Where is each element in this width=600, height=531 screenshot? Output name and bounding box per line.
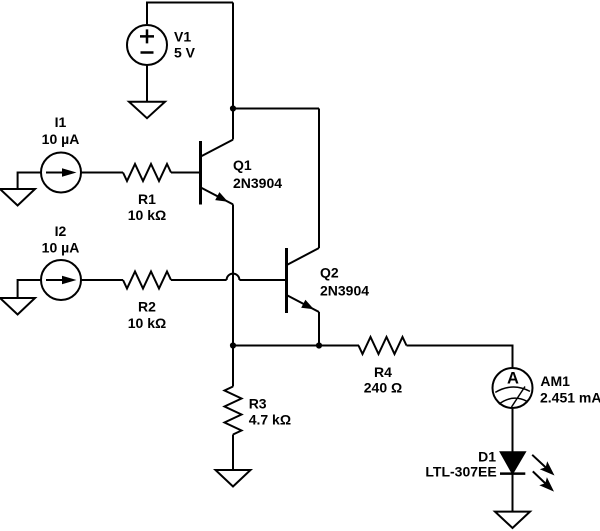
wire R3 to ground [232,435,234,471]
wire AM1 to D1 [512,409,514,452]
wire node A right [233,108,319,110]
svg-text:2N3904: 2N3904 [320,283,369,299]
ground under R3 [216,470,251,487]
svg-text:V1: V1 [174,29,191,45]
svg-text:10 kΩ: 10 kΩ [128,207,166,223]
label D1 [425,449,496,480]
label R3 [249,395,291,427]
node B dot [230,342,236,348]
LED D1 [500,452,525,473]
svg-text:5 V: 5 V [174,44,196,60]
voltage source V1 [127,25,167,65]
ammeter AM1 [493,368,533,408]
wire Q2 emitter down [318,312,320,346]
svg-text:AM1: AM1 [540,373,570,389]
svg-text:D1: D1 [478,449,496,465]
label I2 [42,223,80,256]
wire node B down to R3 [232,346,234,387]
label Q1 [233,157,282,191]
current source I1 [41,153,81,193]
svg-text:10 kΩ: 10 kΩ [128,315,166,331]
svg-text:I1: I1 [55,114,67,130]
ground under V1 [129,102,165,119]
svg-text:R4: R4 [374,364,392,380]
wire Q1 emitter down [232,204,234,345]
label Q2 [320,265,369,299]
resistor R1 [123,164,171,181]
current source I2 [41,260,81,300]
label AM1 [540,373,600,406]
svg-text:2.451 mA: 2.451 mA [540,390,600,406]
wire I2 left [18,280,41,298]
transistor Q1 [201,140,234,205]
ground under D1 [495,512,530,528]
wire R1 to Q1 base [171,172,200,174]
ground at I1 [0,189,35,206]
ground at I2 [0,298,35,315]
transistor Q2 [287,248,320,313]
wire bottom rail [233,345,359,347]
svg-text:R2: R2 [138,299,156,315]
svg-text:4.7 kΩ: 4.7 kΩ [249,411,291,427]
svg-text:I2: I2 [55,223,67,239]
wire down to Q2 collector [318,109,320,249]
wire V1 bottom [146,65,148,102]
wire I2 to R2 [81,279,123,281]
label V1 [174,29,196,61]
svg-text:240 Ω: 240 Ω [364,380,402,396]
svg-text:R3: R3 [249,395,267,411]
svg-text:Q2: Q2 [320,265,339,281]
wire V1 top to rail [147,3,233,25]
resistor R3 [225,387,242,435]
wire R2 to hop [171,279,227,281]
label R1 [128,191,166,223]
svg-text:10 µA: 10 µA [42,131,80,147]
wire hop over vertical [227,274,240,280]
LED emission arrow 2 [533,471,554,491]
wire rail down to node A [232,3,234,109]
svg-text:A: A [507,370,519,388]
node A dot [230,105,236,111]
resistor R4 [359,337,407,354]
svg-text:R1: R1 [138,191,156,207]
label I1 [42,114,80,147]
svg-text:Q1: Q1 [233,157,252,173]
wire node A to Q1 collector [232,109,234,140]
LED emission arrow 1 [532,455,554,476]
wire D1 to ground [512,474,514,512]
wire R4 to AM1 [407,346,513,368]
svg-text:10 µA: 10 µA [42,240,80,256]
label R2 [128,299,166,332]
wire I1 left [18,173,41,190]
svg-text:2N3904: 2N3904 [233,175,282,191]
node C dot [316,342,322,348]
svg-text:LTL-307EE: LTL-307EE [425,464,496,480]
wire hop to Q2 base [239,279,286,281]
resistor R2 [123,272,171,289]
wire I1 to R1 [81,172,123,174]
label R4 [364,364,402,396]
